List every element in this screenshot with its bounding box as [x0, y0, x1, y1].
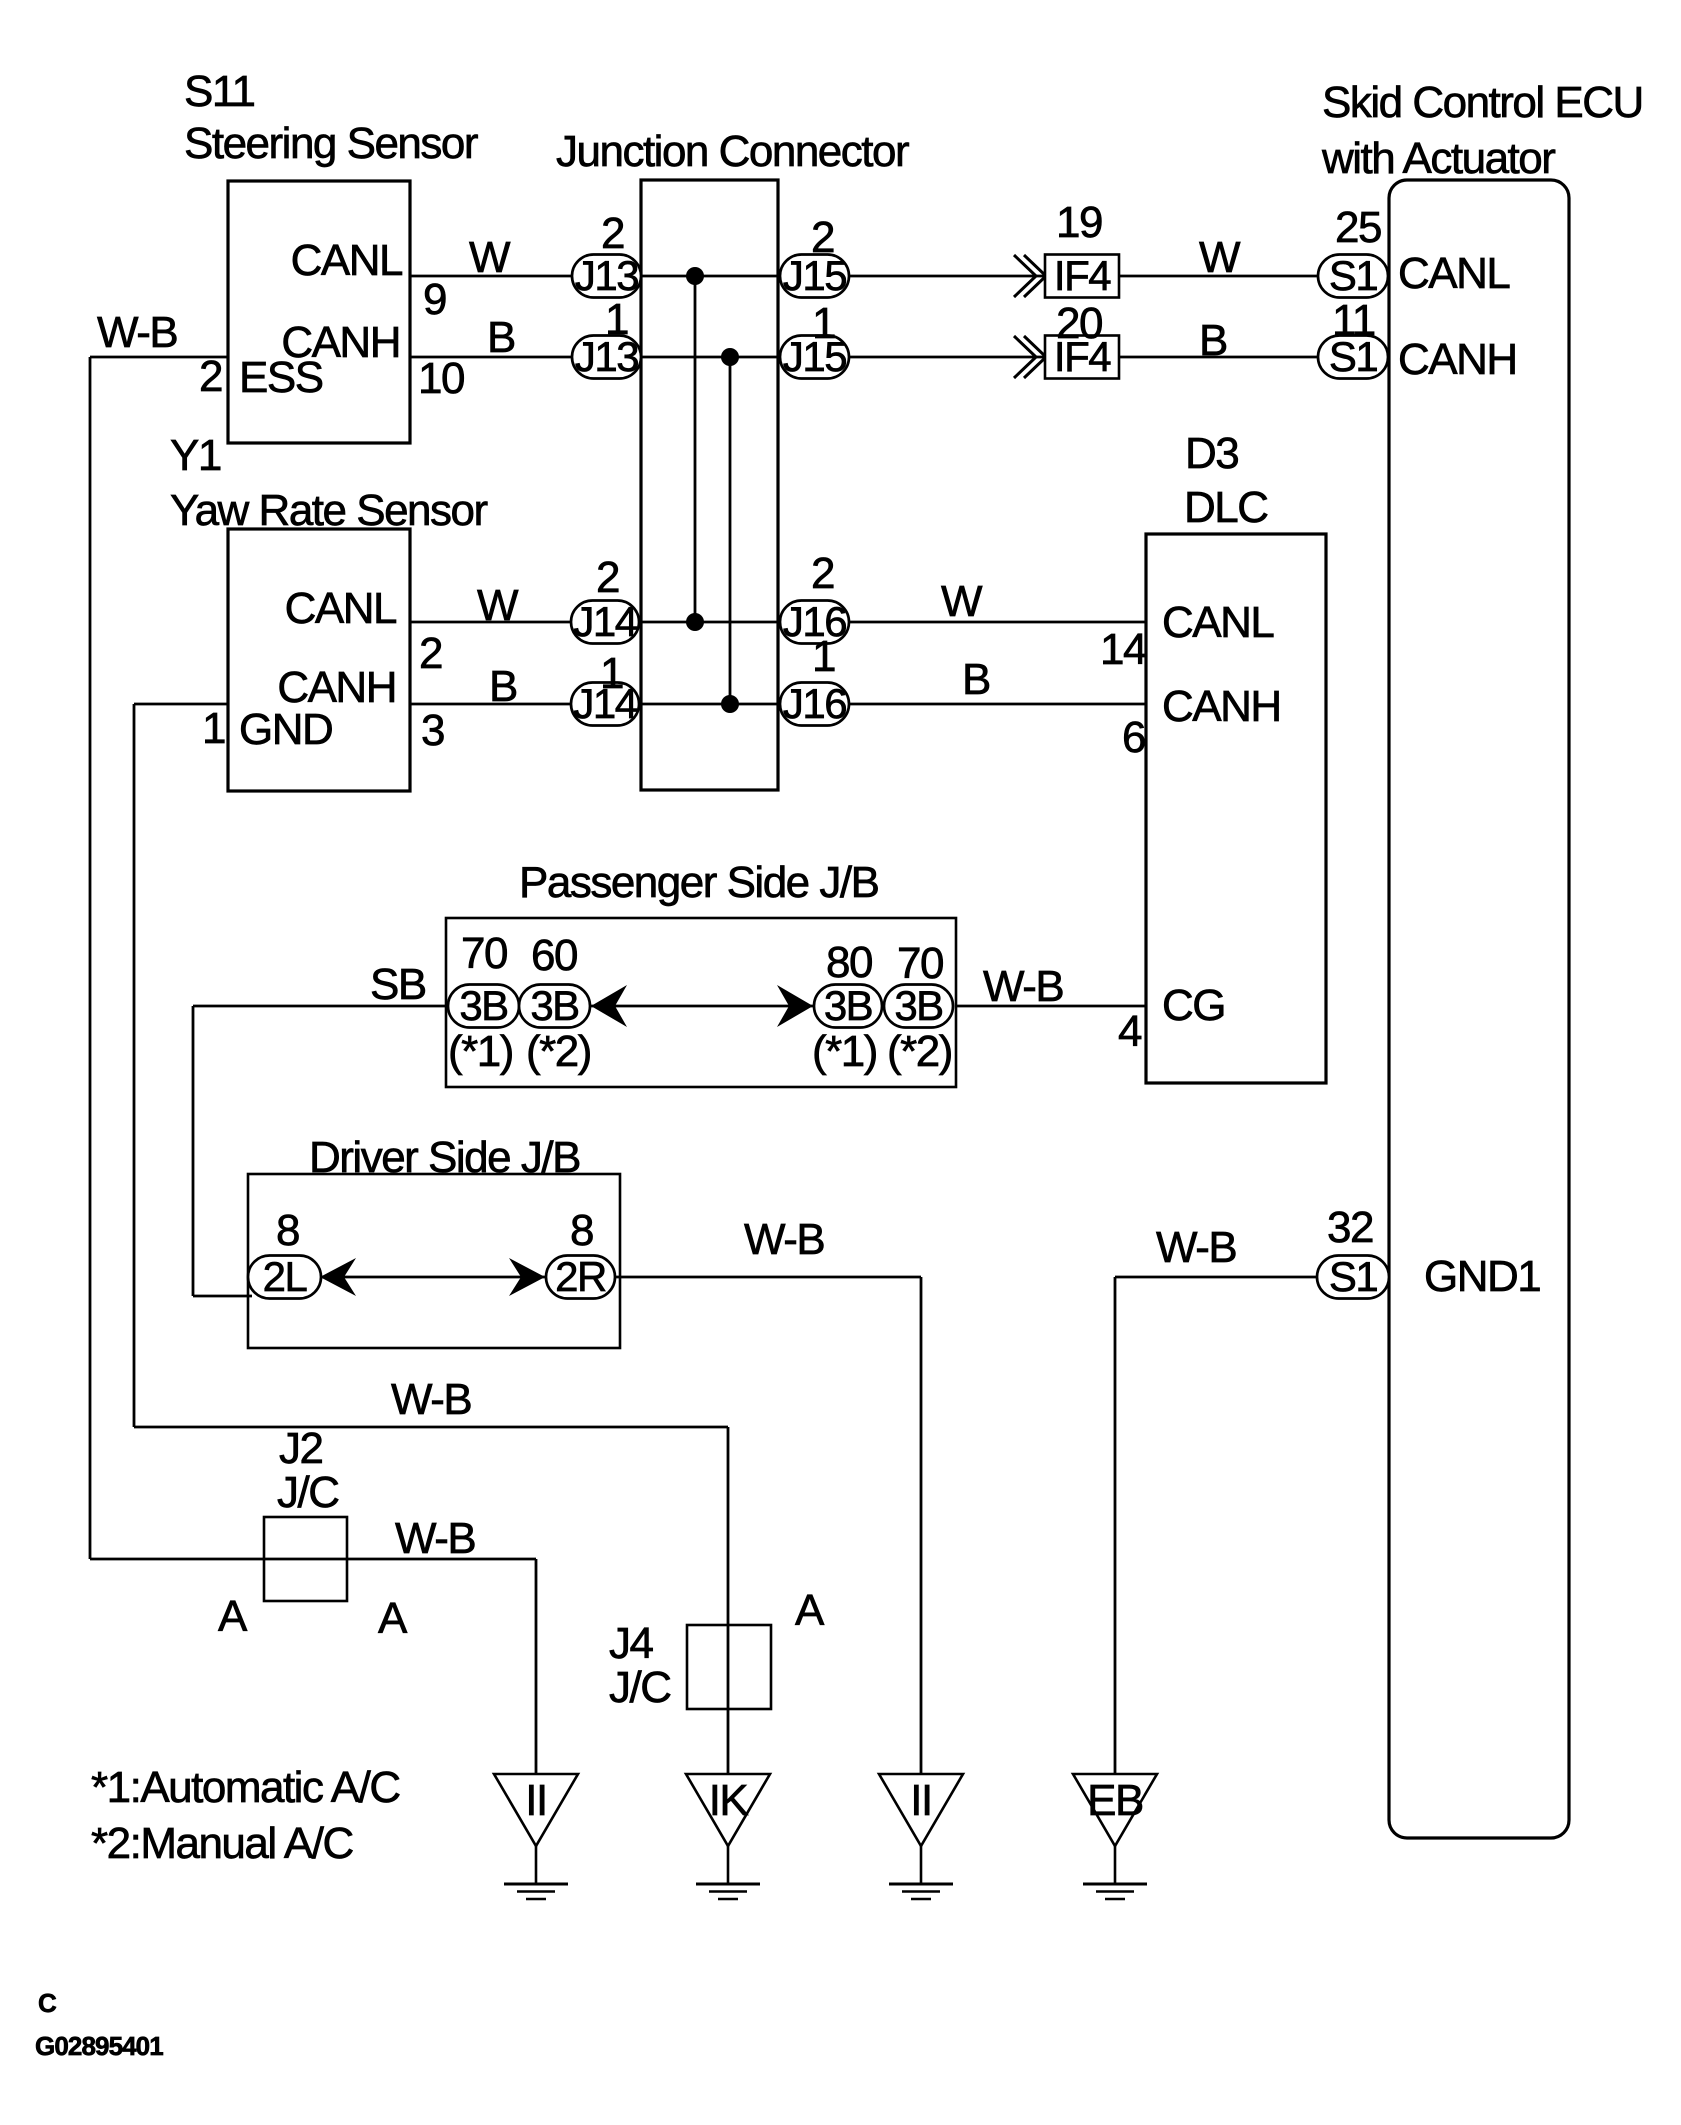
ground II (driver J/B branch): [879, 1774, 963, 1846]
svg-text:3B: 3B: [824, 982, 872, 1029]
svg-text:80: 80: [826, 938, 872, 987]
junction connector box: [641, 180, 778, 790]
svg-text:11: 11: [1332, 296, 1375, 345]
svg-text:3B: 3B: [459, 982, 507, 1029]
wire CANL row: Steering Sensor pin 9 to Skid Control ECU pin 25 (W): [410, 275, 1389, 278]
connector J16 pin 1: [780, 680, 849, 727]
steering sensor S11 box: [228, 181, 410, 443]
connector 3B pin 70 right: [884, 982, 953, 1029]
svg-text:J16: J16: [783, 680, 846, 727]
svg-text:2: 2: [601, 209, 624, 258]
wire SB: Passenger Side J/B 3B to Driver Side J/B 2L: [193, 1005, 448, 1008]
svg-text:1: 1: [600, 649, 623, 698]
svg-text:9: 9: [423, 275, 446, 324]
svg-text:W: W: [477, 581, 519, 630]
connector J14 pin 2: [571, 598, 639, 645]
svg-text:CANH: CANH: [1162, 682, 1281, 731]
svg-text:B: B: [487, 313, 515, 362]
svg-text:(*1): (*1): [448, 1027, 513, 1076]
connector 2L pin 8: [248, 1253, 321, 1300]
arrow driver J/B left: [320, 1258, 356, 1296]
svg-text:W-B: W-B: [983, 962, 1063, 1011]
skid control ECU box: [1389, 180, 1569, 1838]
svg-text:2L: 2L: [263, 1253, 307, 1300]
svg-text:CANH: CANH: [1398, 335, 1517, 384]
svg-text:2R: 2R: [555, 1253, 606, 1300]
ground EB (ECU branch): [1073, 1774, 1157, 1846]
svg-text:J4: J4: [609, 1619, 654, 1668]
svg-text:Driver Side J/B: Driver Side J/B: [309, 1133, 580, 1182]
svg-text:J2: J2: [279, 1424, 323, 1473]
svg-text:60: 60: [531, 931, 577, 980]
svg-text:SB: SB: [370, 960, 426, 1009]
svg-text:2: 2: [419, 629, 442, 678]
svg-text:10: 10: [418, 354, 464, 403]
svg-text:A: A: [378, 1594, 408, 1643]
wire junction connector internal vertical B: [729, 357, 732, 704]
connector S1 pin 11: [1318, 333, 1388, 380]
connector J14 pin 1: [571, 680, 639, 727]
svg-text:W: W: [1199, 233, 1241, 282]
svg-text:ESS: ESS: [239, 353, 323, 402]
wire junction connector internal vertical W: [694, 276, 697, 622]
svg-text:4: 4: [1118, 1007, 1142, 1056]
svg-text:8: 8: [570, 1206, 593, 1255]
svg-text:CG: CG: [1162, 981, 1225, 1030]
svg-text:W-B: W-B: [97, 308, 177, 357]
connector 3B pin 80: [814, 982, 882, 1029]
svg-text:2: 2: [199, 352, 222, 401]
svg-text:CANL: CANL: [1162, 598, 1274, 647]
svg-text:25: 25: [1335, 203, 1381, 252]
svg-text:70: 70: [897, 939, 943, 988]
svg-text:2: 2: [811, 213, 834, 262]
svg-text:3: 3: [421, 706, 444, 755]
connector 2R pin 8: [546, 1253, 615, 1300]
svg-text:14: 14: [1100, 625, 1147, 674]
connector J16 pin 2: [780, 598, 849, 645]
connector IF4 pin 19: [1014, 255, 1036, 297]
svg-text:W: W: [469, 233, 511, 282]
svg-text:D3: D3: [1185, 429, 1238, 478]
connector S1 pin 32: [1317, 1253, 1389, 1300]
svg-text:2: 2: [811, 549, 834, 598]
wire inside Driver Side J/B: [250, 1276, 615, 1279]
svg-text:B: B: [962, 655, 990, 704]
svg-text:GND: GND: [239, 705, 332, 754]
svg-text:Steering Sensor: Steering Sensor: [184, 119, 478, 168]
svg-text:C: C: [38, 1988, 57, 2018]
svg-text:20: 20: [1056, 299, 1102, 348]
connector J13 pin 2: [572, 252, 641, 299]
svg-text:Skid Control ECU: Skid Control ECU: [1322, 78, 1643, 127]
yaw rate sensor Y1 box: [228, 529, 410, 791]
svg-text:W-B: W-B: [395, 1514, 475, 1563]
connector IF4 pin 20: [1014, 336, 1036, 378]
wire inside Passenger Side J/B: [448, 1005, 953, 1008]
wire W-B: Driver Side J/B 2R down to ground II: [615, 1276, 921, 1279]
svg-text:S1: S1: [1329, 1253, 1378, 1300]
DLC D3 box: [1146, 534, 1326, 1083]
svg-text:CANL: CANL: [1398, 249, 1510, 298]
svg-text:S11: S11: [184, 67, 255, 116]
svg-text:1: 1: [605, 295, 628, 344]
svg-text:with Actuator: with Actuator: [1321, 134, 1555, 183]
svg-text:8: 8: [276, 1206, 299, 1255]
arrow passenger J/B right: [777, 985, 813, 1027]
svg-text:*2:Manual A/C: *2:Manual A/C: [91, 1819, 353, 1868]
svg-text:6: 6: [1122, 713, 1145, 762]
svg-text:W-B: W-B: [391, 1375, 471, 1424]
svg-text:70: 70: [461, 929, 507, 978]
junction connector J4 box: [687, 1625, 771, 1709]
svg-text:J13: J13: [575, 252, 638, 299]
svg-text:1: 1: [812, 299, 835, 348]
connector J13 pin 1: [572, 333, 641, 380]
wire W-B: Yaw Rate Sensor GND pin 1 left then down through J4 J/C to ground IK: [134, 703, 228, 706]
svg-text:A: A: [218, 1592, 248, 1641]
wire CANH row: Yaw Rate Sensor pin 3 to DLC pin 6 (B): [410, 703, 1146, 706]
svg-text:1: 1: [812, 632, 835, 681]
svg-text:Junction Connector: Junction Connector: [556, 127, 909, 176]
svg-text:32: 32: [1327, 1203, 1373, 1252]
svg-text:*1:Automatic A/C: *1:Automatic A/C: [91, 1763, 400, 1812]
node junction dot B lower: [721, 695, 739, 713]
wire W-B: Passenger Side J/B 3B to DLC CG pin 4: [956, 1005, 1146, 1008]
svg-text:G02895401: G02895401: [35, 2031, 163, 2061]
svg-text:19: 19: [1056, 198, 1102, 247]
connector 3B pin 60: [519, 982, 590, 1029]
svg-text:1: 1: [202, 704, 225, 753]
svg-text:B: B: [489, 662, 517, 711]
node junction dot W lower: [686, 613, 704, 631]
wire W-B: Steering Sensor ESS pin 2 left then down to J2 J/C and ground II: [90, 356, 228, 359]
svg-text:IK: IK: [709, 1776, 749, 1825]
driver side J/B box: [248, 1174, 620, 1348]
ground II (J2 branch): [494, 1774, 578, 1846]
svg-text:IF4: IF4: [1054, 252, 1111, 299]
wire CANH row: Steering Sensor pin 10 to Skid Control ECU pin 11 (B): [410, 356, 1389, 359]
svg-text:CANL: CANL: [285, 584, 397, 633]
svg-text:Y1: Y1: [170, 431, 221, 480]
connector S1 pin 25: [1318, 252, 1388, 299]
svg-text:CANL: CANL: [291, 236, 403, 285]
svg-text:J14: J14: [573, 598, 637, 645]
svg-text:DLC: DLC: [1184, 483, 1268, 532]
svg-text:3B: 3B: [530, 982, 578, 1029]
wire CANL row: Yaw Rate Sensor pin 2 to DLC pin 14 (W): [410, 621, 1146, 624]
svg-text:J/C: J/C: [609, 1663, 671, 1712]
svg-text:(*2): (*2): [526, 1027, 591, 1076]
svg-text:B: B: [1199, 316, 1227, 365]
svg-text:W: W: [941, 577, 983, 626]
ground IK (J4 branch): [686, 1774, 770, 1846]
svg-text:J/C: J/C: [277, 1468, 339, 1517]
svg-text:A: A: [795, 1586, 825, 1635]
svg-text:3B: 3B: [894, 982, 942, 1029]
svg-text:II: II: [910, 1776, 931, 1825]
svg-text:Passenger Side J/B: Passenger Side J/B: [519, 858, 879, 907]
svg-text:W-B: W-B: [744, 1215, 824, 1264]
wire W-B: Skid Control ECU GND1 pin 32 down to ground EB: [1115, 1276, 1317, 1279]
connector J15 pin 2: [780, 252, 849, 299]
svg-text:Yaw Rate Sensor: Yaw Rate Sensor: [170, 486, 487, 535]
svg-text:2: 2: [596, 553, 619, 602]
passenger side J/B box: [446, 918, 956, 1087]
connector 3B pin 70 left: [448, 982, 519, 1029]
svg-text:S1: S1: [1329, 252, 1378, 299]
node junction dot B upper: [721, 348, 739, 366]
junction connector J2 box: [264, 1517, 347, 1601]
svg-text:GND1: GND1: [1424, 1252, 1540, 1301]
connector J15 pin 1: [780, 333, 849, 380]
svg-text:(*2): (*2): [887, 1027, 952, 1076]
svg-text:II: II: [525, 1776, 546, 1825]
node junction dot W upper: [686, 267, 704, 285]
svg-text:(*1): (*1): [812, 1027, 877, 1076]
svg-text:W-B: W-B: [1156, 1223, 1236, 1272]
svg-text:EB: EB: [1087, 1776, 1143, 1825]
arrow driver J/B right: [509, 1258, 545, 1296]
arrow passenger J/B left: [591, 985, 627, 1027]
